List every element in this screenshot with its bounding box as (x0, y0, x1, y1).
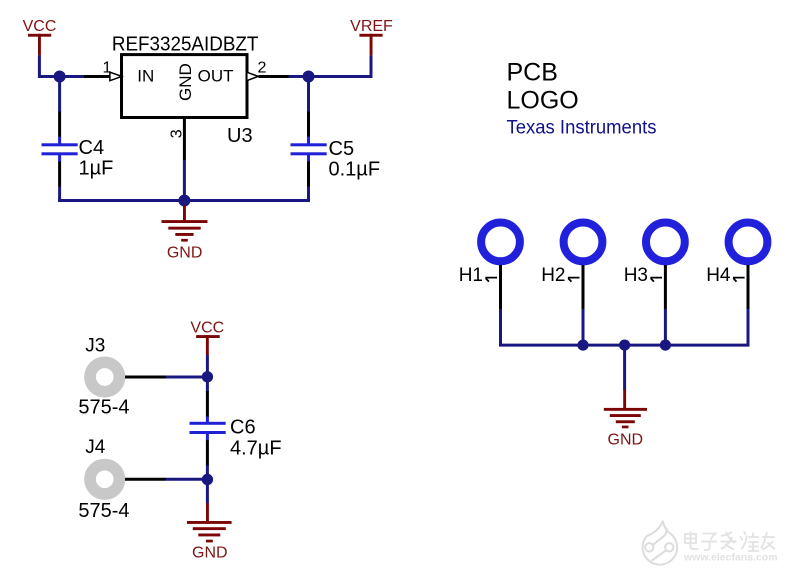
capacitor C5 (291, 112, 327, 187)
svg-text:H4: H4 (706, 265, 731, 286)
wire H1 to rail (501, 309, 584, 345)
svg-text:2: 2 (258, 60, 267, 77)
svg-text:575-4: 575-4 (78, 500, 129, 522)
wire rail down to ground (623, 345, 626, 390)
wire pin 3 to ground node (183, 160, 186, 196)
op-amp U3 body (122, 55, 248, 118)
svg-text:Texas Instruments: Texas Instruments (507, 117, 657, 138)
wire H4 to rail (665, 309, 748, 345)
H4 pin number 1 mark (733, 278, 745, 282)
wire node D down to ground (206, 480, 209, 504)
wire J3 to node C (166, 376, 207, 379)
svg-text:J4: J4 (85, 437, 106, 458)
ground symbol (bottom) (187, 503, 232, 542)
J3 pin (125, 376, 166, 379)
J4 pin (125, 478, 166, 481)
node C junction dot (202, 371, 213, 382)
wire VCC to node C (206, 355, 209, 377)
ground symbol (U3 circuit) (162, 205, 208, 242)
pin 1 line (84, 75, 110, 78)
wire ground rail (583, 344, 665, 347)
H1 pin number 1 mark (485, 278, 497, 282)
wire C5 down to bottom rail (307, 187, 310, 203)
svg-text:IN: IN (137, 67, 154, 86)
node A junction dot (54, 71, 66, 83)
svg-text:U3: U3 (227, 125, 253, 147)
svg-text:3: 3 (168, 129, 185, 138)
wire VCC stem to node A (39, 55, 86, 76)
connector J3 (90, 362, 119, 391)
wire H3 to rail (664, 309, 667, 345)
pin 2 triangle (247, 72, 258, 81)
mounting hole H1 (481, 223, 520, 262)
svg-text:GND: GND (167, 245, 203, 262)
svg-text:GND: GND (176, 63, 195, 101)
svg-text:GND: GND (608, 432, 644, 449)
power symbol VCC (top-left) (23, 18, 57, 55)
svg-text:4.7µF: 4.7µF (230, 437, 282, 459)
svg-text:VCC: VCC (23, 18, 57, 35)
svg-text:C6: C6 (230, 417, 256, 439)
svg-text:C5: C5 (329, 138, 355, 160)
H4 pin (747, 265, 750, 309)
node D junction dot (202, 474, 213, 485)
H2 junction dot (577, 340, 588, 351)
svg-text:C4: C4 (79, 137, 105, 159)
svg-text:REF3325AIDBZT: REF3325AIDBZT (112, 34, 259, 56)
svg-text:LOGO: LOGO (507, 86, 579, 114)
svg-text:J3: J3 (85, 336, 105, 357)
H2 pin number 1 mark (568, 278, 580, 282)
capacitor C4 (42, 112, 78, 187)
power symbol VREF (350, 18, 393, 55)
svg-text:www.elecfans.com: www.elecfans.com (683, 551, 778, 563)
wire node A down to C4 (58, 77, 61, 113)
wire H2 to rail (582, 309, 585, 345)
mounting hole H2 (564, 223, 603, 262)
wire node B down to C5 (307, 77, 310, 113)
pin 3 line (183, 118, 186, 160)
svg-text:H2: H2 (541, 265, 565, 286)
wire bottom rail (58, 199, 308, 202)
H3 pin number 1 mark (650, 278, 662, 282)
wire C6 to node D (206, 466, 209, 480)
wire J4 to node D (166, 478, 207, 481)
rail GND junction dot (619, 340, 630, 351)
watermark CJK text (drawn strokes) (685, 532, 775, 552)
svg-text:H3: H3 (624, 265, 648, 286)
svg-text:1µF: 1µF (79, 158, 114, 180)
H3 pin (664, 265, 667, 309)
svg-text:GND: GND (192, 545, 228, 562)
svg-text:0.1µF: 0.1µF (329, 159, 381, 181)
wire C4 down to bottom rail (58, 187, 61, 203)
node GND junction dot (178, 195, 190, 207)
svg-text:PCB: PCB (507, 59, 558, 87)
svg-text:VCC: VCC (190, 319, 224, 336)
power symbol VCC (bottom) (190, 319, 224, 355)
connector J4 (90, 465, 119, 494)
mounting hole H4 (729, 223, 768, 262)
H1 pin (499, 265, 502, 309)
mounting hole H3 (646, 223, 685, 262)
H3 junction dot (660, 340, 671, 351)
capacitor C6 (190, 391, 226, 466)
pin 1 triangle (110, 72, 122, 81)
pin 2 line (259, 75, 290, 78)
watermark logo circle (643, 521, 678, 565)
H2 pin (582, 265, 585, 309)
svg-text:H1: H1 (459, 265, 483, 286)
wire node C down to C6 (206, 377, 209, 392)
ground symbol (mounting holes) (604, 390, 647, 429)
wire pin 2 to VREF (289, 55, 371, 76)
svg-text:OUT: OUT (198, 67, 234, 86)
node B junction dot (303, 71, 315, 83)
svg-text:VREF: VREF (350, 18, 393, 35)
svg-text:575-4: 575-4 (78, 397, 129, 419)
